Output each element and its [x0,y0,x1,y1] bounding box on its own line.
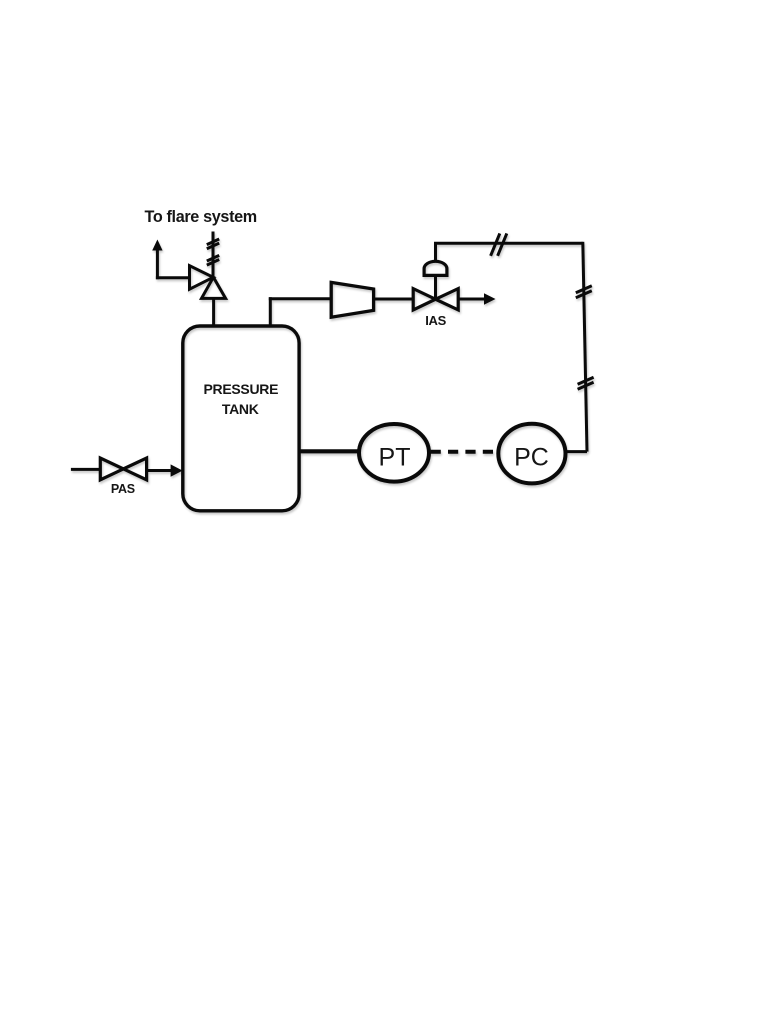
slash tick pair 2 on relief signal [207,255,219,265]
vent arrow head [152,240,162,251]
instrument PC bubble [498,424,565,484]
control valve body right triangle [436,289,459,310]
svg-text:To flare system: To flare system [145,208,257,226]
pipe reducer to control valve [374,298,413,301]
outlet arrow head [484,293,496,304]
pipe inlet left segment [71,468,100,471]
valve PAS right triangle [123,458,146,480]
valve PAS left triangle [100,458,123,480]
svg-text:PRESSURE: PRESSURE [203,381,278,397]
relief valve PSV horizontal triangle [190,266,214,290]
pressure tank vessel [183,326,299,511]
vent arrow to flare (vertical shaft) [156,249,159,279]
signal line horizontal run to right corner [434,242,583,245]
control valve stem [434,276,437,300]
svg-text:IAS: IAS [425,313,446,328]
instrument PT bubble [359,424,429,482]
slash tick pair 1 on relief signal [207,239,219,249]
svg-text:PT: PT [379,444,411,472]
wire vent horizontal run [156,276,190,279]
reducer (trapezoid) [331,282,373,317]
slash tick pair on horizontal signal [491,233,507,255]
pipe tank top to reducer (horizontal) [269,297,331,300]
slash tick pair 1 on right signal [576,286,592,298]
control valve body left triangle [413,289,435,310]
signal line actuator to corner (vertical) [434,243,437,261]
svg-text:TANK: TANK [222,401,259,417]
signal line right vertical drop [583,242,587,452]
svg-text:PAS: PAS [111,482,135,496]
dashed signal PT to PC [431,450,496,454]
slash tick pair 2 on right signal [578,377,594,389]
outlet arrow line from control valve [458,298,485,301]
relief valve PSV vertical triangle [202,277,226,298]
signal line above relief valve [212,232,215,278]
svg-text:PC: PC [514,444,549,472]
pipe PAS to tank [147,469,173,472]
pipe relief valve to tank top [212,298,215,326]
signal line into PC [566,450,587,453]
inlet arrow head into tank [171,464,183,476]
actuator dome [424,261,447,275]
pipe tank top to reducer (vertical) [269,297,272,326]
pipe tank to PT [299,449,360,453]
